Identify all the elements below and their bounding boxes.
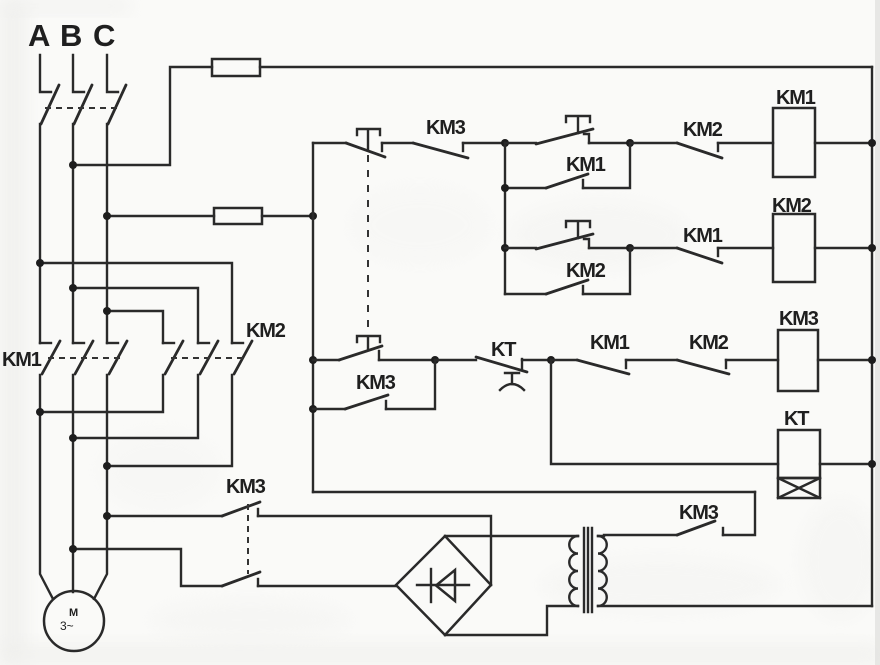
contactor KM2 main contact pole 1 — [163, 341, 183, 374]
contact KM1 (NC interlock) rung2 — [677, 248, 722, 263]
contact KM2 (NC) rung3 — [677, 360, 729, 374]
wire to parallel node — [379, 359, 435, 361]
contact KM3 upper (NO, braking feed) — [222, 502, 260, 516]
svg-text:B: B — [60, 18, 82, 53]
svg-text:KT: KT — [784, 408, 809, 430]
wire left control bus — [312, 143, 314, 492]
node FU2 / left bus junction — [309, 212, 317, 220]
node phase A tap — [36, 259, 44, 267]
svg-text:KT: KT — [491, 339, 516, 361]
wire KM2 pole 2 output to lead B — [73, 375, 198, 438]
contact KM3 auxiliary (NO, seal-in) — [313, 360, 435, 409]
wire crossover phase C to KM2 pole 1 — [107, 311, 163, 343]
svg-text:KM2: KM2 — [689, 332, 729, 354]
wire phase C below KM1 to motor — [94, 375, 107, 599]
motor M 3~ — [44, 591, 104, 651]
QS gang link (dashed) — [45, 107, 120, 109]
svg-text:A: A — [28, 18, 50, 53]
node right bus rung3 — [868, 356, 876, 364]
wire braking upper to rectifier right vertex — [258, 516, 491, 585]
node phase B / FU1 tap — [69, 161, 77, 169]
svg-text:3~: 3~ — [60, 619, 74, 633]
wire node to KM1 interlock — [551, 359, 577, 361]
transformer T primary winding — [569, 536, 578, 606]
wire rectifier bottom vertex to transformer primary bottom — [445, 606, 578, 635]
KM1 gang link (dashed) — [48, 357, 120, 359]
fuse FU1 — [212, 59, 260, 76]
transformer T secondary winding — [598, 536, 607, 606]
contact KM3 lower (NO, braking feed) — [222, 572, 260, 586]
disconnect switch QS pole B — [73, 55, 92, 124]
bridge rectifier VC — [396, 536, 491, 635]
wire top control bus (FU1 to right bus) — [260, 66, 872, 68]
node phase B braking tap — [69, 545, 77, 553]
node rung1 start left — [501, 139, 509, 147]
wire KM2 NC to coil KM1 — [718, 142, 773, 144]
contactor KM1 main contact pole 1 — [40, 341, 60, 374]
wire KM2 NC to coil KM3 — [726, 359, 778, 361]
wire to fuse FU2 from phase C — [107, 215, 214, 217]
contactor KM1 main contact pole 2 — [73, 341, 93, 374]
SB stop to lower contact mechanical link (dashed) — [367, 155, 369, 330]
wire node to KM1 interlock — [630, 247, 677, 249]
node phase B tap — [69, 284, 77, 292]
node right bus rung1 — [868, 139, 876, 147]
wire node to KT contact — [435, 359, 476, 361]
svg-text:KM1: KM1 — [776, 87, 816, 109]
contact KM1 auxiliary (NO, seal-in) — [505, 143, 630, 188]
wire coil KT to right bus — [820, 463, 872, 465]
wire rectifier top vertex to transformer primary top — [445, 535, 578, 537]
wire right control bus — [871, 67, 873, 606]
wire coil KM3 to right bus — [818, 359, 872, 361]
wire start branch bus — [504, 143, 506, 294]
wire node to KM2 interlock — [630, 142, 677, 144]
wire KM3 NC to start node — [463, 142, 505, 144]
node KM3 aux branch left — [309, 405, 317, 413]
fuse FU2 — [214, 208, 262, 224]
relay KT coil (time relay) — [778, 430, 820, 498]
node right bus KT — [868, 460, 876, 468]
coil KM3 — [778, 330, 818, 391]
svg-text:KM2: KM2 — [566, 260, 606, 282]
wire stop to KM3 interlock — [382, 142, 413, 144]
node phase C tap — [103, 307, 111, 315]
pushbutton SB2 start (NO) — [505, 221, 593, 249]
svg-text:KM1: KM1 — [2, 349, 42, 371]
contact KM3 (NC) rung1 — [413, 143, 468, 158]
contactor KM1 main contact pole 3 — [107, 341, 127, 374]
svg-text:KM3: KM3 — [226, 476, 266, 498]
node phase C braking tap — [103, 512, 111, 520]
wire coil KM2 to right bus — [815, 247, 872, 249]
KM2 gang link (dashed) — [171, 357, 246, 359]
node rung3 / KT coil branch — [547, 356, 555, 364]
svg-text:KM3: KM3 — [356, 372, 396, 394]
coil KM1 — [773, 108, 815, 177]
wire transformer secondary top to KM3 contact — [598, 535, 677, 536]
node seal-in branch left — [501, 184, 509, 192]
wire transformer secondary bottom to right bus bottom — [598, 605, 872, 607]
wire SB1 to node — [589, 142, 630, 144]
wire KM1 NC to coil KM2 — [718, 247, 773, 249]
wire KM2 pole 3 output to lead C — [107, 375, 232, 466]
wire braking lower to rectifier left vertex — [258, 585, 396, 587]
svg-text:KM2: KM2 — [246, 320, 286, 342]
wire crossover phase B to KM2 pole 2 — [73, 288, 198, 343]
node right bus rung2 — [868, 244, 876, 252]
node lead B / KM2 output — [69, 434, 77, 442]
wire bottom link (left bus bottom to KM3 contact) — [313, 491, 755, 493]
svg-text:KM1: KM1 — [683, 225, 723, 247]
contact KM1 (NC) rung3 — [577, 360, 629, 374]
wire crossover phase A to KM2 pole 3 — [40, 263, 232, 343]
svg-text:KM1: KM1 — [590, 332, 630, 354]
wire phase C vertical (switch to KM1 contact) — [106, 124, 108, 343]
node lead A / KM2 output — [36, 408, 44, 416]
wire KM1 NC to KM2 NC — [626, 359, 677, 361]
svg-text:KM1: KM1 — [566, 154, 606, 176]
wire phase B to braking contact KM3 lower — [73, 549, 222, 586]
svg-text:C: C — [93, 18, 115, 53]
wire KM2 pole 1 output to lead A — [40, 375, 163, 412]
wire phase B below KM1 to motor — [72, 375, 74, 592]
wire SB2 to node — [589, 247, 630, 249]
disconnect switch QS pole C — [107, 55, 126, 124]
KM3 braking gang link (dashed) — [247, 504, 249, 574]
wire FU2 to left control bus — [262, 215, 313, 217]
coil KM2 — [773, 214, 815, 282]
contact KM2 (NC interlock) rung1 — [677, 143, 722, 158]
pushbutton SB stop second contact (NO) — [313, 336, 382, 360]
contactor KM2 main contact pole 2 — [198, 341, 218, 374]
node phase C / FU2 tap — [103, 212, 111, 220]
contact KT (NC, time delayed) — [476, 357, 527, 390]
node rung3 parallel — [431, 356, 439, 364]
svg-text:KM3: KM3 — [426, 117, 466, 139]
contactor KM2 main contact pole 3 — [232, 341, 252, 374]
disconnect switch QS pole A — [40, 55, 59, 124]
node lead C / KM2 output — [103, 462, 111, 470]
contact KM3 (NO, transformer secondary) — [677, 521, 723, 535]
node rung2 seal-in — [626, 244, 634, 252]
wire phase A below KM1 to motor — [40, 375, 53, 599]
wire phase A vertical (switch to KM1 contact) — [39, 124, 41, 343]
svg-text:M: M — [69, 607, 78, 619]
wire branch down to KT coil — [551, 360, 778, 464]
svg-text:KM3: KM3 — [779, 308, 819, 330]
wire phase C to braking contact KM3 upper — [107, 515, 222, 517]
wire phase B vertical (switch to KM1 contact) — [72, 124, 74, 343]
wire KT contact to node — [522, 359, 551, 361]
svg-text:KM2: KM2 — [683, 119, 723, 141]
wire coil KM1 to right bus — [815, 142, 872, 144]
pushbutton SB1 start (NO) — [505, 116, 593, 144]
transformer core — [584, 528, 592, 612]
wire rung1 feed — [313, 142, 346, 144]
pushbutton SB stop contact (NC) — [346, 129, 385, 157]
wire KM3 secondary contact to bottom link — [723, 492, 755, 535]
contact KM2 auxiliary (NO, seal-in) — [505, 248, 630, 294]
node rung1 seal-in — [626, 139, 634, 147]
node rung2 start left — [501, 244, 509, 252]
node rung3 feed — [309, 356, 317, 364]
wire to fuse FU1 from phase B — [73, 67, 212, 165]
